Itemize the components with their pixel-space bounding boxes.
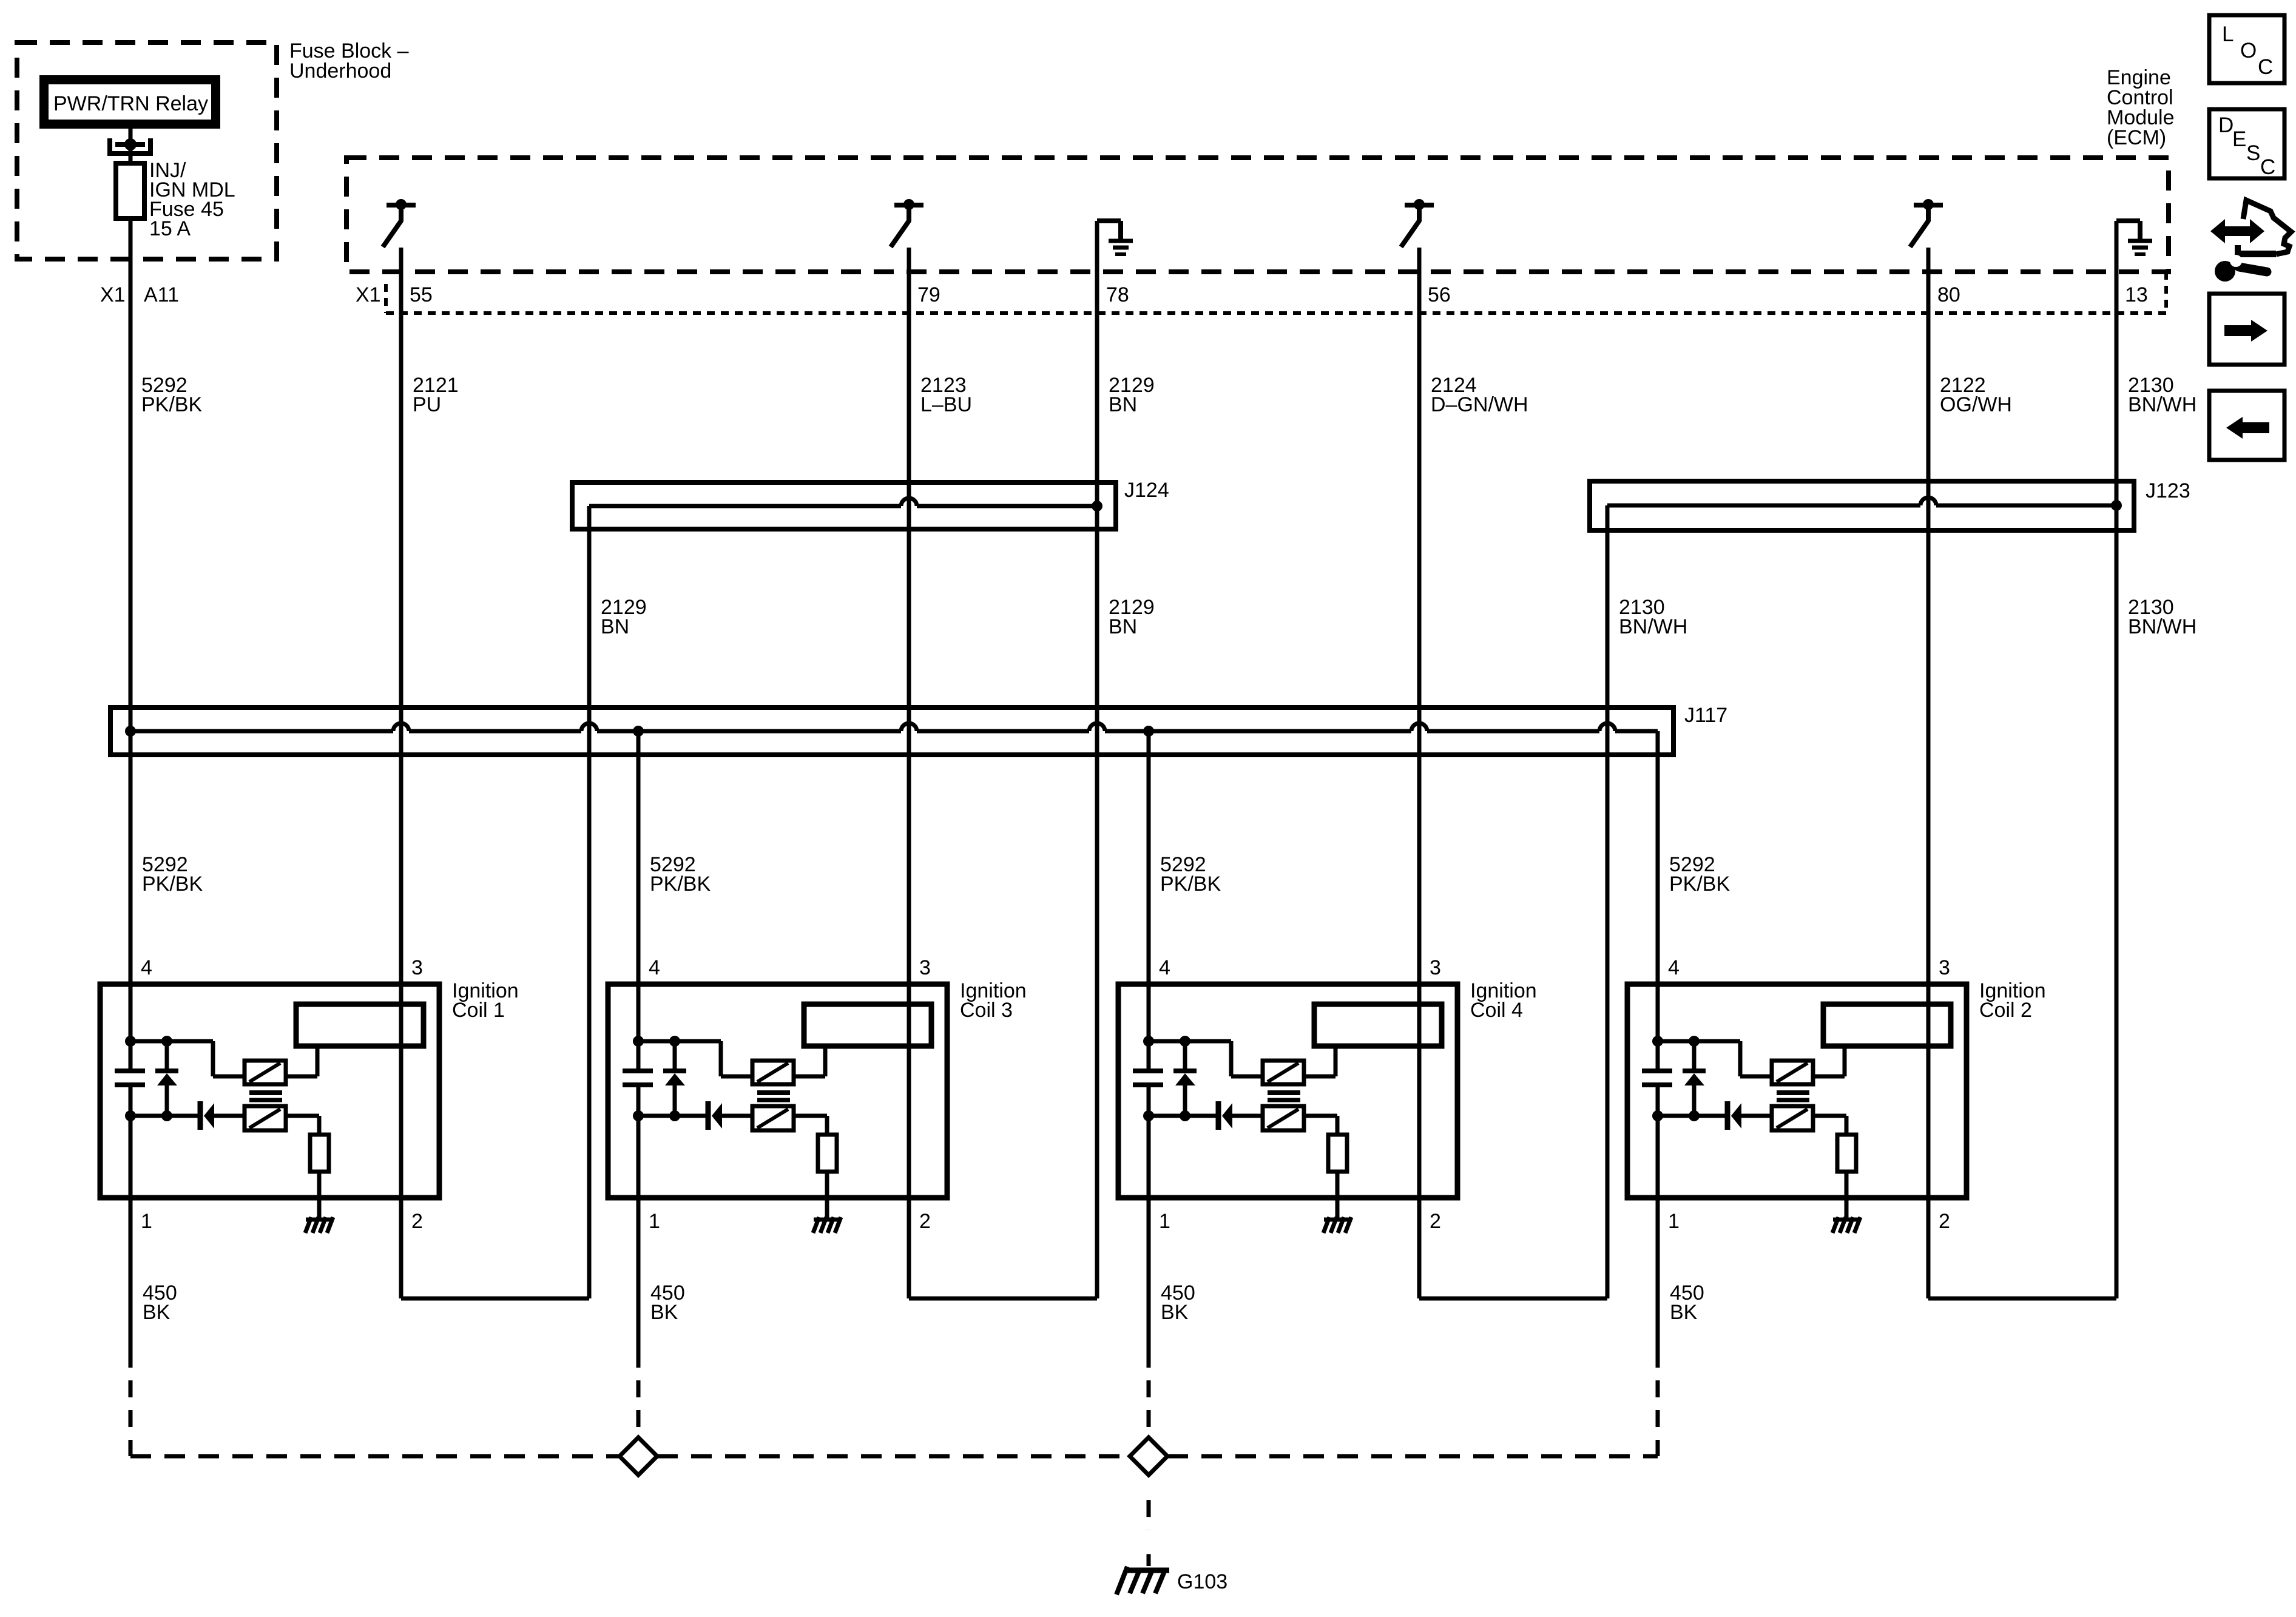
wire 2121 PU (pin 55 to coil 1 pin 3 / pin 2) [399, 248, 403, 1298]
svg-text:4: 4 [1668, 956, 1680, 979]
label X1 (ECM connector) [356, 283, 381, 306]
ECM connector dotted line [386, 311, 2166, 315]
ground (coil 4 internal) [1323, 1217, 1351, 1233]
wire 2129 BN (pin 78 through J124) [1095, 221, 1099, 1298]
splice pack J123 (box) [1590, 481, 2134, 530]
svg-text:BK: BK [143, 1301, 171, 1324]
zener diode (coil 3) [663, 1071, 686, 1085]
fuse block - underhood (dashed box) [17, 42, 277, 259]
optocoupler gap bars (coil 3) [757, 1093, 790, 1100]
pin 78 label [1106, 283, 1129, 306]
ignition coil 4 (box) [1118, 984, 1457, 1198]
wire coil 2 pin 2 link [1928, 1297, 2116, 1301]
label 450 BK (coil 3) [650, 1281, 685, 1324]
wire relay to fuse terminal [129, 129, 133, 165]
ignition coil 3 (box) [608, 984, 947, 1198]
node J117 splice to coil 3 feed [633, 726, 644, 737]
capacitor (coil 3) [623, 1071, 653, 1085]
wire 450 BK dashed drop (coil 4) [1147, 1380, 1151, 1437]
svg-text:D–GN/WH: D–GN/WH [1431, 393, 1528, 416]
svg-text:BK: BK [1161, 1301, 1189, 1324]
wire 450 BK dashed drop (coil 2) [1656, 1380, 1660, 1456]
svg-text:PK/BK: PK/BK [142, 873, 203, 896]
pin labels coil 1 [141, 956, 423, 1233]
svg-text:D: D [2218, 113, 2234, 137]
optocoupler upper (coil 4) [1263, 1061, 1304, 1084]
coil winding (coil 4) [1314, 1004, 1442, 1046]
svg-text:A11: A11 [144, 283, 179, 306]
wire 450 BK dashed bus (left segment) [130, 1454, 620, 1459]
wire coil 1 pin 2 link [401, 1297, 589, 1301]
resistor (coil 3) [818, 1135, 837, 1172]
node coil 1 top-left [125, 1036, 136, 1047]
pin labels coil 3 [649, 956, 931, 1233]
pin 13 label [2125, 283, 2148, 306]
label Engine Control Module (ECM) [2107, 66, 2175, 149]
label 2122 OG/WH [1940, 374, 2012, 416]
splice pack J117 internal bus [130, 723, 1658, 731]
svg-text:Coil 4: Coil 4 [1470, 999, 1523, 1022]
coil winding (coil 1) [296, 1004, 424, 1046]
label 2124 D-GN/WH [1431, 374, 1528, 416]
label 450 BK (coil 1) [143, 1281, 177, 1324]
svg-text:BN/WH: BN/WH [2128, 393, 2196, 416]
svg-text:1: 1 [649, 1210, 660, 1233]
ignition coil 2 (box) [1627, 984, 1967, 1198]
svg-text:3: 3 [411, 956, 423, 979]
pin labels coil 4 [1159, 956, 1441, 1233]
pin 79 label [917, 283, 940, 306]
label 2121 PU [413, 374, 459, 416]
svg-text:2: 2 [411, 1210, 423, 1233]
node coil 2 zener top [1689, 1036, 1700, 1047]
label J117 [1684, 704, 1727, 727]
wire dashed drop to G103 [1147, 1476, 1151, 1566]
wire 2123 L-BU (pin 79 to coil 3 pin 3 / pin 2) [907, 248, 911, 1298]
svg-text:X1: X1 [100, 283, 126, 306]
wire 450 BK (coil 2 pin 1) [1656, 1198, 1660, 1368]
node coil 3 zener bottom [669, 1110, 680, 1121]
svg-text:O: O [2240, 39, 2257, 62]
splice diamond (G103 drop) [1130, 1437, 1167, 1475]
icon forward arrow box [2209, 294, 2284, 365]
label 5292 PK/BK (coil 4 feed) [1160, 853, 1221, 896]
svg-text:1: 1 [1668, 1210, 1680, 1233]
label 5292 PK/BK (coil 2 feed) [1669, 853, 1730, 896]
node coil 4 bottom-left [1143, 1110, 1154, 1121]
splice pack J124 internal bus [589, 498, 1102, 511]
wire 5292 PK/BK (J117 to coil 2 pin 4) [1656, 731, 1660, 984]
fuse terminal bracket [110, 138, 150, 154]
node coil 1 bottom-left [125, 1110, 136, 1121]
svg-text:4: 4 [649, 956, 660, 979]
zener diode (coil 2) [1683, 1071, 1706, 1085]
capacitor (coil 2) [1642, 1071, 1672, 1085]
label Ignition Coil 2 [1979, 979, 2046, 1022]
switch (ECM driver, pin 55) [383, 199, 416, 247]
ground (coil 2 internal) [1832, 1217, 1860, 1233]
node coil 3 bottom-left [633, 1110, 644, 1121]
label 2130 BN/WH (below J123) [2128, 596, 2196, 638]
label 5292 PK/BK (coil 1 feed) [142, 853, 203, 896]
node coil 2 top-left [1652, 1036, 1663, 1047]
label 2129 BN (pin 78) [1109, 374, 1155, 416]
capacitor (coil 1) [115, 1071, 145, 1085]
wire 450 BK dashed bus (right segment) [1167, 1454, 1658, 1459]
svg-text:L: L [2222, 22, 2234, 46]
diode (coil 3) [708, 1101, 722, 1130]
fuse INJ/IGN MDL Fuse 45 15A (body) [116, 163, 144, 218]
optocoupler lower (coil 4) [1263, 1106, 1304, 1130]
node J117 splice to fuse wire [125, 726, 136, 737]
svg-text:E: E [2232, 127, 2246, 151]
svg-text:C: C [2260, 155, 2275, 179]
wire 2130 BN/WH (J123 branch) [1606, 505, 1610, 1298]
wire coil 4 pin 2 link [1419, 1297, 1607, 1301]
wire 5292 PK/BK (J117 to coil 4 pin 4) [1147, 731, 1151, 984]
label Ignition Coil 1 [452, 979, 519, 1022]
node coil 4 top-left [1143, 1036, 1154, 1047]
splice diamond (coil 3 drop) [620, 1437, 657, 1475]
node coil 3 zener top [669, 1036, 680, 1047]
ground G103 [1116, 1567, 1169, 1595]
node coil 3 top-left [633, 1036, 644, 1047]
node coil 2 zener bottom [1689, 1110, 1700, 1121]
svg-text:80: 80 [1937, 283, 1960, 306]
wire 2124 D-GN/WH (pin 56 to coil 4 pin 3 / pin 2) [1417, 248, 1422, 1298]
optocoupler upper (coil 3) [752, 1061, 794, 1084]
node coil 4 zener top [1180, 1036, 1190, 1047]
pin 55 label [410, 283, 433, 306]
node J117 splice to coil 4 feed [1143, 726, 1154, 737]
svg-text:BN/WH: BN/WH [2128, 615, 2196, 638]
svg-text:PWR/TRN Relay: PWR/TRN Relay [53, 92, 208, 115]
label INJ/IGN MDL Fuse 45 15 A [149, 159, 235, 240]
svg-text:3: 3 [1939, 956, 1950, 979]
wire 450 BK (coil 4 pin 1) [1147, 1198, 1151, 1368]
svg-text:2: 2 [1939, 1210, 1950, 1233]
wire 2122 OG/WH (pin 80 to coil 2 pin 3 / pin 2) [1926, 248, 1931, 1298]
optocoupler gap bars (coil 2) [1777, 1093, 1809, 1100]
svg-text:J123: J123 [2146, 479, 2190, 502]
node coil 1 zener bottom [161, 1110, 172, 1121]
node coil 2 bottom-left [1652, 1110, 1663, 1121]
relay PWR/TRN Relay [44, 80, 216, 124]
splice pack J124 (box) [572, 482, 1116, 529]
svg-text:3: 3 [1430, 956, 1441, 979]
optocoupler upper (coil 2) [1772, 1061, 1813, 1084]
svg-text:PK/BK: PK/BK [650, 873, 711, 896]
label G103 [1177, 1570, 1227, 1593]
zener diode (coil 4) [1173, 1071, 1197, 1085]
ground (ECM internal, pin 78) [1097, 221, 1133, 254]
svg-text:BN: BN [1109, 393, 1137, 416]
icon LOC box [2209, 15, 2284, 83]
pin labels coil 2 [1668, 956, 1950, 1233]
svg-text:78: 78 [1106, 283, 1129, 306]
zener diode (coil 1) [155, 1071, 178, 1085]
optocoupler upper (coil 1) [245, 1061, 286, 1084]
diode (coil 1) [200, 1101, 214, 1130]
label 2130 BN/WH (pin 13) [2128, 374, 2196, 416]
svg-text:L–BU: L–BU [920, 393, 972, 416]
ignition coil 3 internal wiring [638, 984, 827, 1218]
switch (ECM driver, pin 56) [1401, 199, 1434, 247]
svg-text:Coil 3: Coil 3 [960, 999, 1013, 1022]
ECM connector right dashed tick [2164, 272, 2168, 313]
svg-text:PU: PU [413, 393, 441, 416]
label 2129 BN (J124 branch) [601, 596, 647, 638]
ECM dashed box (Engine Control Module) [346, 158, 2169, 272]
svg-text:2: 2 [919, 1210, 931, 1233]
svg-text:OG/WH: OG/WH [1940, 393, 2012, 416]
svg-text:PK/BK: PK/BK [1160, 873, 1221, 896]
svg-text:4: 4 [141, 956, 152, 979]
label 5292 PK/BK (coil 3 feed) [650, 853, 711, 896]
wire coil 3 pin 2 link [909, 1297, 1097, 1301]
icon back arrow box [2209, 391, 2284, 460]
svg-text:BN: BN [1109, 615, 1137, 638]
svg-text:2: 2 [1430, 1210, 1441, 1233]
resistor (coil 4) [1328, 1135, 1347, 1172]
wire 2129 BN (J124 branch) [587, 506, 592, 1298]
svg-text:79: 79 [917, 283, 940, 306]
optocoupler gap bars (coil 1) [249, 1093, 282, 1100]
diode (coil 4) [1218, 1101, 1232, 1130]
wire 450 BK (coil 3 pin 1) [636, 1198, 641, 1368]
node coil 4 zener bottom [1180, 1110, 1190, 1121]
svg-text:(ECM): (ECM) [2107, 126, 2166, 149]
svg-text:13: 13 [2125, 283, 2148, 306]
splice pack J123 internal bus [1607, 498, 2122, 511]
label Ignition Coil 4 [1470, 979, 1537, 1022]
svg-text:1: 1 [1159, 1210, 1170, 1233]
svg-text:3: 3 [919, 956, 931, 979]
coil winding (coil 3) [804, 1004, 931, 1046]
label 2123 L-BU [920, 374, 972, 416]
ground (coil 3 internal) [813, 1217, 841, 1233]
svg-text:Underhood: Underhood [289, 59, 391, 83]
svg-text:BN/WH: BN/WH [1619, 615, 1687, 638]
ignition coil 2 internal wiring [1658, 984, 1846, 1218]
pin 80 label [1937, 283, 1960, 306]
wire 5292 PK/BK (fuse to J117 to coil 1 pin 4) [129, 218, 133, 984]
svg-text:S: S [2246, 141, 2260, 165]
svg-text:BK: BK [1670, 1301, 1698, 1324]
diode (coil 2) [1727, 1101, 1741, 1130]
coil winding (coil 2) [1823, 1004, 1951, 1046]
wire 450 BK dashed bus (middle segment) [657, 1454, 1130, 1459]
optocoupler gap bars (coil 4) [1268, 1093, 1300, 1100]
svg-text:1: 1 [141, 1210, 152, 1233]
switch (ECM driver, pin 79) [891, 199, 923, 247]
svg-text:15 A: 15 A [149, 217, 191, 240]
svg-text:Coil 1: Coil 1 [452, 999, 505, 1022]
svg-text:C: C [2258, 55, 2273, 79]
ignition coil 1 internal wiring [130, 984, 319, 1218]
ground (coil 1 internal) [305, 1217, 333, 1233]
label 450 BK (coil 4) [1161, 1281, 1195, 1324]
ignition coil 4 internal wiring [1149, 984, 1337, 1218]
wire 5292 PK/BK (J117 to coil 3 pin 4) [636, 731, 641, 984]
node coil 1 zener top [161, 1036, 172, 1047]
pin 56 label [1428, 283, 1451, 306]
svg-text:56: 56 [1428, 283, 1451, 306]
optocoupler lower (coil 1) [245, 1106, 286, 1130]
label 5292 PK/BK (top) [141, 374, 202, 416]
optocoupler lower (coil 3) [752, 1106, 794, 1130]
wire 450 BK dashed drop (coil 1) [129, 1380, 133, 1456]
label J124 [1124, 479, 1169, 502]
ECM connector left dashed tick [384, 284, 388, 313]
svg-text:PK/BK: PK/BK [1669, 873, 1730, 896]
label 2130 BN/WH (J123 branch) [1619, 596, 1687, 638]
label Ignition Coil 3 [960, 979, 1027, 1022]
pin X1 A11 labels [100, 283, 179, 306]
switch (ECM driver, pin 80) [1910, 199, 1943, 247]
optocoupler lower (coil 2) [1772, 1106, 1813, 1130]
icon adjust (double arrow, hand and wrench) [2210, 200, 2291, 282]
resistor (coil 2) [1837, 1135, 1856, 1172]
icon DESC box [2209, 109, 2284, 179]
splice pack J117 (box) [110, 707, 1673, 755]
svg-text:BN: BN [601, 615, 629, 638]
ignition coil 1 (box) [100, 984, 439, 1198]
label 2129 BN (below J124) [1109, 596, 1155, 638]
svg-text:BK: BK [650, 1301, 678, 1324]
label 450 BK (coil 2) [1670, 1281, 1704, 1324]
label Fuse Block - Underhood [289, 39, 409, 83]
svg-text:G103: G103 [1177, 1570, 1227, 1593]
svg-text:X1: X1 [356, 283, 381, 306]
svg-text:J124: J124 [1124, 479, 1169, 502]
label J123 [2146, 479, 2190, 502]
svg-text:PK/BK: PK/BK [141, 393, 202, 416]
svg-text:Coil 2: Coil 2 [1979, 999, 2032, 1022]
wire 450 BK dashed drop (coil 3) [636, 1380, 641, 1437]
ground (ECM internal, pin 13) [2116, 221, 2152, 254]
svg-text:J117: J117 [1684, 704, 1727, 727]
svg-text:55: 55 [410, 283, 433, 306]
svg-text:4: 4 [1159, 956, 1170, 979]
wire 2130 BN/WH (pin 13 through J123) [2115, 221, 2119, 1298]
resistor (coil 1) [310, 1135, 329, 1172]
wire 450 BK (coil 1 pin 1) [129, 1198, 133, 1368]
capacitor (coil 4) [1133, 1071, 1163, 1085]
